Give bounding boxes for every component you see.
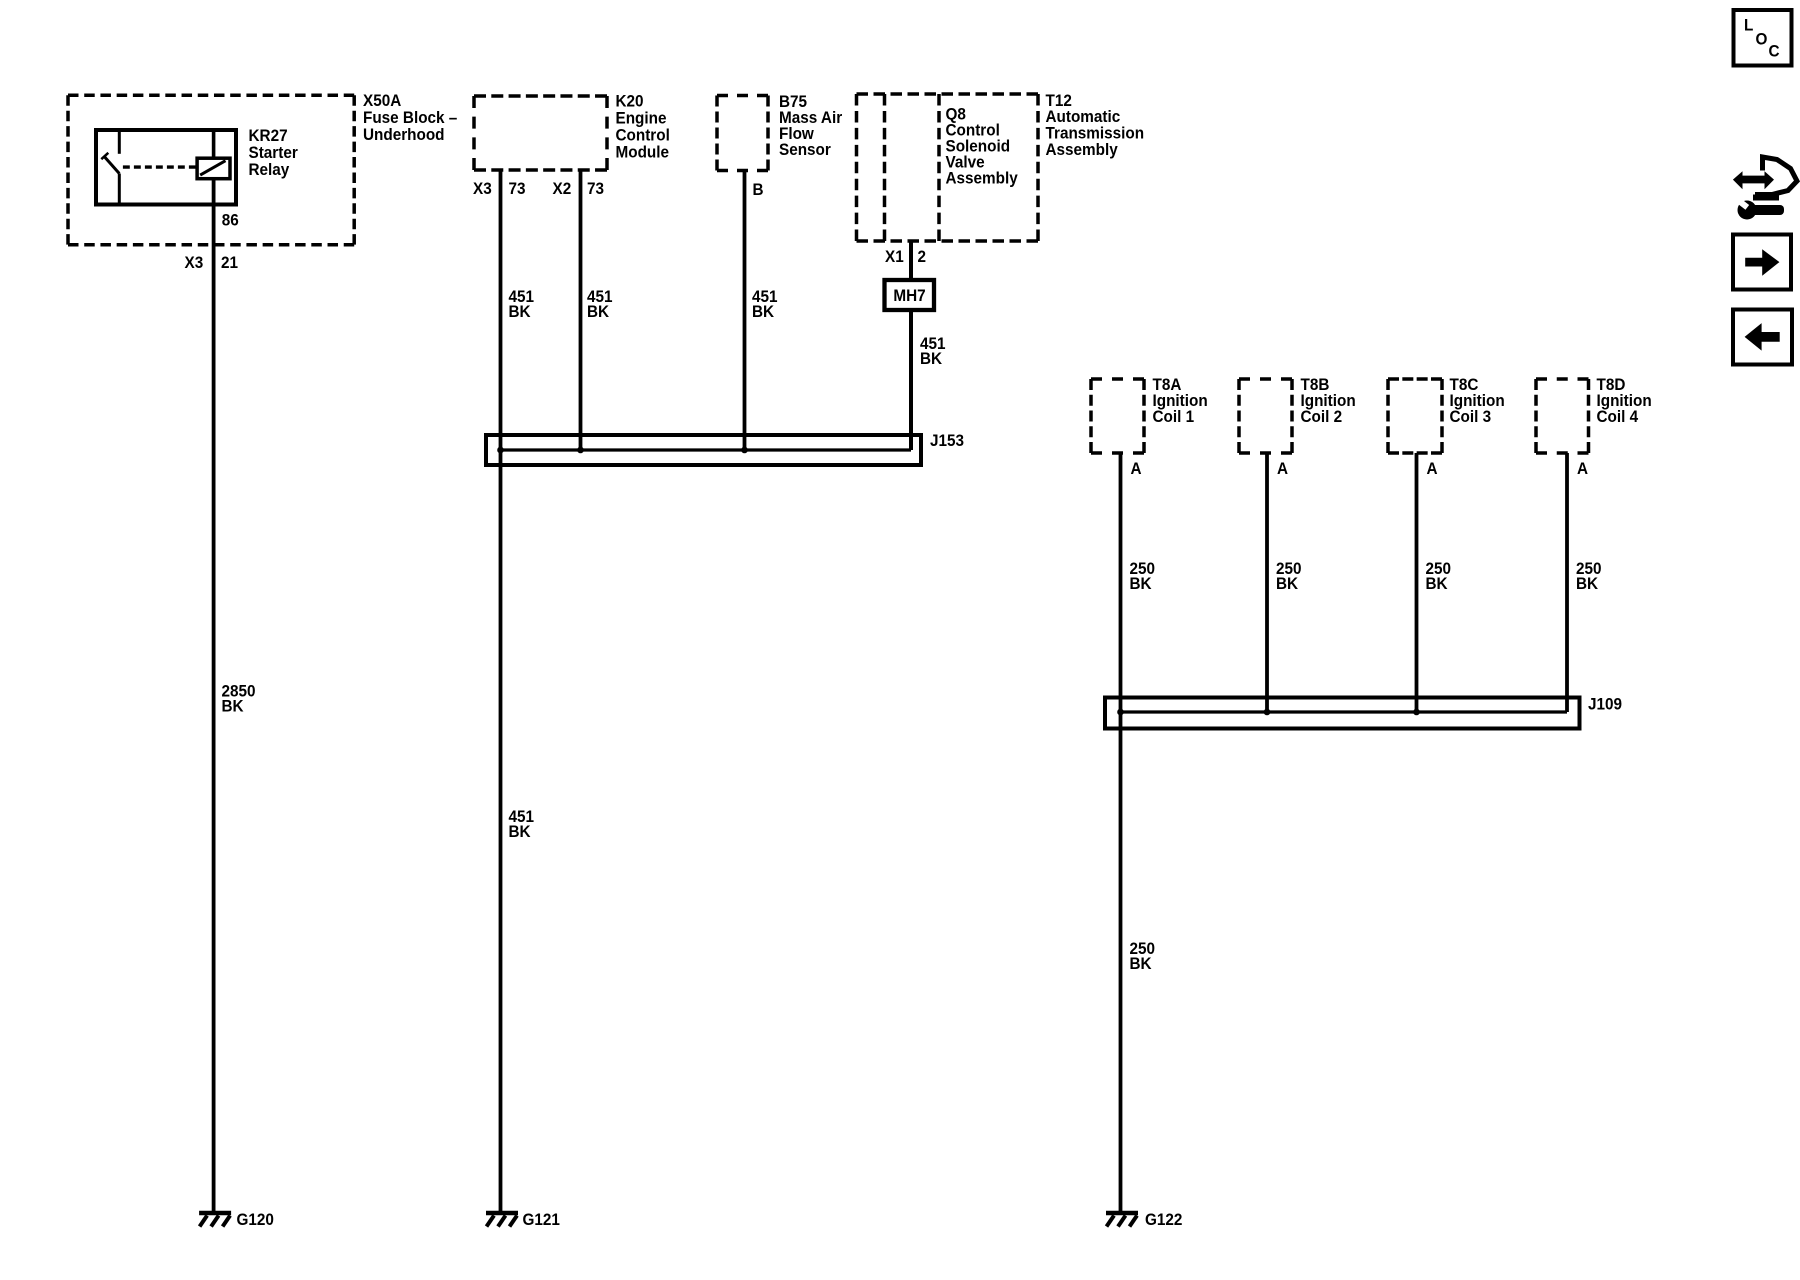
svg-text:Sensor: Sensor [779, 140, 831, 159]
label 2850 BK [222, 682, 256, 716]
pin A label (T8B) [1277, 459, 1288, 478]
ignition coil T8D dashed outline [1536, 379, 1589, 453]
svg-text:G120: G120 [237, 1210, 274, 1229]
label 451 BK (K20 X3 wire) [509, 287, 535, 321]
wire 2850 BK from relay pin 86 to G120 [212, 179, 216, 1213]
svg-text:X3: X3 [473, 179, 492, 198]
pin 86 label [222, 211, 239, 230]
ECM K20 dashed outline [474, 96, 607, 170]
svg-text:BK: BK [1130, 574, 1152, 593]
icon swap-arrows with wrench [1733, 157, 1797, 220]
ground G120 [199, 1210, 274, 1229]
svg-text:73: 73 [587, 179, 604, 198]
junction dot J109-2 [1264, 709, 1271, 716]
svg-text:X1: X1 [885, 247, 904, 266]
wire 250 BK from T8B pin A [1265, 453, 1269, 712]
ignition coil T8B dashed outline [1239, 379, 1292, 453]
svg-text:86: 86 [222, 211, 239, 230]
svg-text:BK: BK [1276, 574, 1298, 593]
svg-text:BK: BK [1130, 954, 1152, 973]
label 451 BK (MH7 wire) [920, 334, 946, 368]
label 250 BK (T8C wire) [1426, 559, 1452, 593]
svg-text:Coil 2: Coil 2 [1301, 407, 1343, 426]
svg-text:21: 21 [221, 253, 238, 272]
junction dot J109-1 [1117, 709, 1124, 716]
svg-text:O: O [1756, 30, 1768, 49]
svg-text:BK: BK [1576, 574, 1598, 593]
relay KR27 switch blade [101, 153, 119, 174]
pin A label (T8C) [1427, 459, 1438, 478]
splice pack J153 bus bar [501, 448, 912, 451]
fuse block X50A dashed outline [68, 95, 354, 244]
wire 250 BK from T8C pin A [1415, 453, 1419, 712]
pin X1 / 2 labels [885, 247, 926, 266]
relay KR27 coil box [197, 158, 230, 179]
wire 250 BK from T8A pin A [1119, 453, 1123, 1213]
icon LOC box [1734, 10, 1792, 66]
wire from Q8 pin 2 to splice MH7 [909, 241, 913, 280]
svg-text:J153: J153 [930, 431, 964, 450]
label X50A Fuse Block - Underhood [363, 91, 457, 144]
MAF sensor B75 dashed outline [717, 96, 768, 171]
label T12 Automatic Transmission Assembly [1046, 91, 1145, 159]
pin X3 / 21 labels [185, 253, 239, 272]
label 451 BK (B75 wire) [752, 287, 778, 321]
wire 451 BK from K20 pin X3-73 to G121 [499, 170, 503, 1213]
splice pack J153 box [486, 435, 921, 465]
svg-text:BK: BK [587, 302, 609, 321]
svg-text:BK: BK [509, 822, 531, 841]
label 451 BK (lower, to G121) [509, 807, 535, 841]
relay KR27 coil top lead [212, 130, 216, 158]
junction dot J153-2 [577, 447, 584, 454]
solenoid Q8 dashed sides [885, 94, 940, 241]
label 250 BK (T8B wire) [1276, 559, 1302, 593]
label T8C Ignition Coil 3 [1450, 375, 1505, 426]
pin A label (T8D) [1577, 459, 1588, 478]
label B75 Mass Air Flow Sensor [779, 92, 843, 159]
icon forward arrow box [1733, 235, 1791, 290]
transmission T12 dashed outline [857, 94, 1039, 241]
label T8B Ignition Coil 2 [1301, 375, 1356, 426]
svg-text:A: A [1131, 459, 1142, 478]
pin A label (T8A) [1131, 459, 1142, 478]
label Q8 Control Solenoid Valve Assembly [946, 105, 1018, 188]
ground G121 [486, 1210, 560, 1229]
ground G122 [1106, 1210, 1182, 1229]
svg-text:MH7: MH7 [893, 286, 925, 305]
svg-text:Assembly: Assembly [946, 169, 1018, 188]
svg-text:73: 73 [509, 179, 526, 198]
svg-text:Coil 1: Coil 1 [1153, 407, 1195, 426]
svg-text:Assembly: Assembly [1046, 140, 1118, 159]
icon back arrow box [1733, 310, 1792, 365]
svg-text:J109: J109 [1588, 695, 1622, 714]
svg-text:X3: X3 [185, 253, 204, 272]
label 250 BK (T8D wire) [1576, 559, 1602, 593]
svg-text:Relay: Relay [249, 160, 290, 179]
svg-text:A: A [1577, 459, 1588, 478]
svg-text:Underhood: Underhood [363, 125, 445, 144]
svg-text:G122: G122 [1145, 1210, 1182, 1229]
svg-text:BK: BK [509, 302, 531, 321]
label J153 [930, 431, 964, 450]
junction dot J109-3 [1413, 709, 1420, 716]
wire 451 BK from B75 pin B to J153 [743, 171, 747, 451]
svg-text:BK: BK [1426, 574, 1448, 593]
label 451 BK (K20 X2 wire) [587, 287, 613, 321]
svg-text:G121: G121 [523, 1210, 560, 1229]
ignition coil T8A dashed outline [1091, 379, 1144, 453]
label T8D Ignition Coil 4 [1597, 375, 1652, 426]
splice MH7 box [885, 280, 935, 310]
svg-text:2: 2 [918, 247, 927, 266]
svg-text:X2: X2 [553, 179, 572, 198]
svg-text:BK: BK [920, 349, 942, 368]
svg-text:BK: BK [222, 697, 244, 716]
junction dot J153-1 [497, 447, 504, 454]
pin B label [753, 180, 764, 199]
svg-text:C: C [1769, 42, 1780, 61]
wire 451 BK from K20 pin X2-73 to J153 [579, 170, 583, 450]
relay KR27 coil diagonal [200, 161, 225, 175]
svg-text:L: L [1744, 16, 1753, 35]
wire 250 BK from T8D pin A [1565, 453, 1569, 712]
pin labels X3 73 X2 73 [473, 179, 604, 198]
ignition coil T8C dashed outline [1388, 379, 1442, 453]
wire 451 BK from MH7 to J153 [909, 310, 913, 450]
label J109 [1588, 695, 1622, 714]
relay KR27 box [96, 130, 236, 205]
label 250 BK (T8A wire) [1130, 559, 1156, 593]
label 250 BK (lower, to G122) [1130, 939, 1156, 973]
label KR27 Starter Relay [249, 126, 299, 179]
junction dot J153-3 [741, 447, 748, 454]
svg-text:Coil 3: Coil 3 [1450, 407, 1492, 426]
splice pack J109 box [1105, 698, 1580, 729]
svg-text:BK: BK [752, 302, 774, 321]
label K20 Engine Control Module [616, 92, 670, 162]
svg-text:A: A [1427, 459, 1438, 478]
svg-text:Module: Module [616, 143, 670, 162]
relay KR27 switch stub [118, 130, 121, 154]
splice pack J109 bus bar [1121, 710, 1568, 713]
relay KR27 switch lower lead [118, 174, 121, 205]
svg-text:A: A [1277, 459, 1288, 478]
svg-text:Coil 4: Coil 4 [1597, 407, 1639, 426]
label T8A Ignition Coil 1 [1153, 375, 1208, 426]
relay KR27 actuation dashed link [123, 165, 196, 168]
svg-text:B: B [753, 180, 764, 199]
